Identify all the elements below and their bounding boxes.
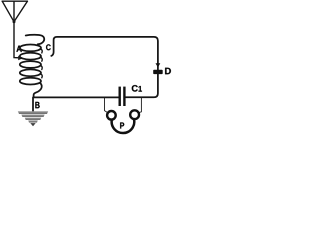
- wire left phone drop: [105, 98, 108, 112]
- inductor L1: [20, 45, 41, 85]
- antenna: [2, 1, 27, 22]
- diode D: [153, 63, 163, 74]
- inductor L1 turn connectors: [40, 49, 42, 78]
- antenna junction: [13, 20, 16, 23]
- node A: [16, 46, 21, 52]
- wire bottom bus from B to capacitor: [34, 96, 119, 98]
- node C: [46, 44, 51, 50]
- headphones P label: [120, 122, 124, 128]
- node B: [35, 102, 39, 108]
- wire tap C to diode (top bus): [51, 37, 158, 70]
- wire antenna lead: [14, 22, 19, 58]
- wire right phone drop: [139, 98, 141, 113]
- capacitor C1 label: [132, 85, 142, 92]
- inductor L1 top turn hook: [26, 35, 45, 45]
- wire diode to bottom right corner: [126, 74, 158, 97]
- ground: [18, 111, 48, 126]
- diode D label: [165, 68, 171, 74]
- arrow tap A into coil: [18, 56, 23, 61]
- wire coil tail to node B: [34, 83, 42, 98]
- headphones P: [107, 110, 139, 133]
- wire B down to ground: [32, 97, 34, 111]
- capacitor C1: [119, 87, 126, 106]
